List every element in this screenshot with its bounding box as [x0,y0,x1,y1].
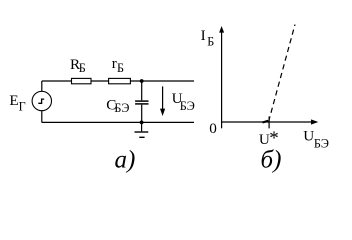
svg-text:Г: Г [19,100,26,114]
svg-text:U: U [303,127,314,144]
svg-text:0: 0 [209,120,217,137]
svg-text:а): а) [115,146,136,173]
svg-text:БЭ: БЭ [114,101,129,115]
svg-text:БЭ: БЭ [314,136,329,150]
svg-text:U: U [259,131,270,148]
svg-text:Б: Б [207,34,214,48]
svg-text:Б: Б [117,61,124,75]
svg-text:E: E [9,92,18,109]
svg-text:БЭ: БЭ [180,99,195,113]
svg-text:б): б) [261,146,282,173]
svg-text:Б: Б [79,61,86,75]
svg-text:I: I [201,27,206,44]
